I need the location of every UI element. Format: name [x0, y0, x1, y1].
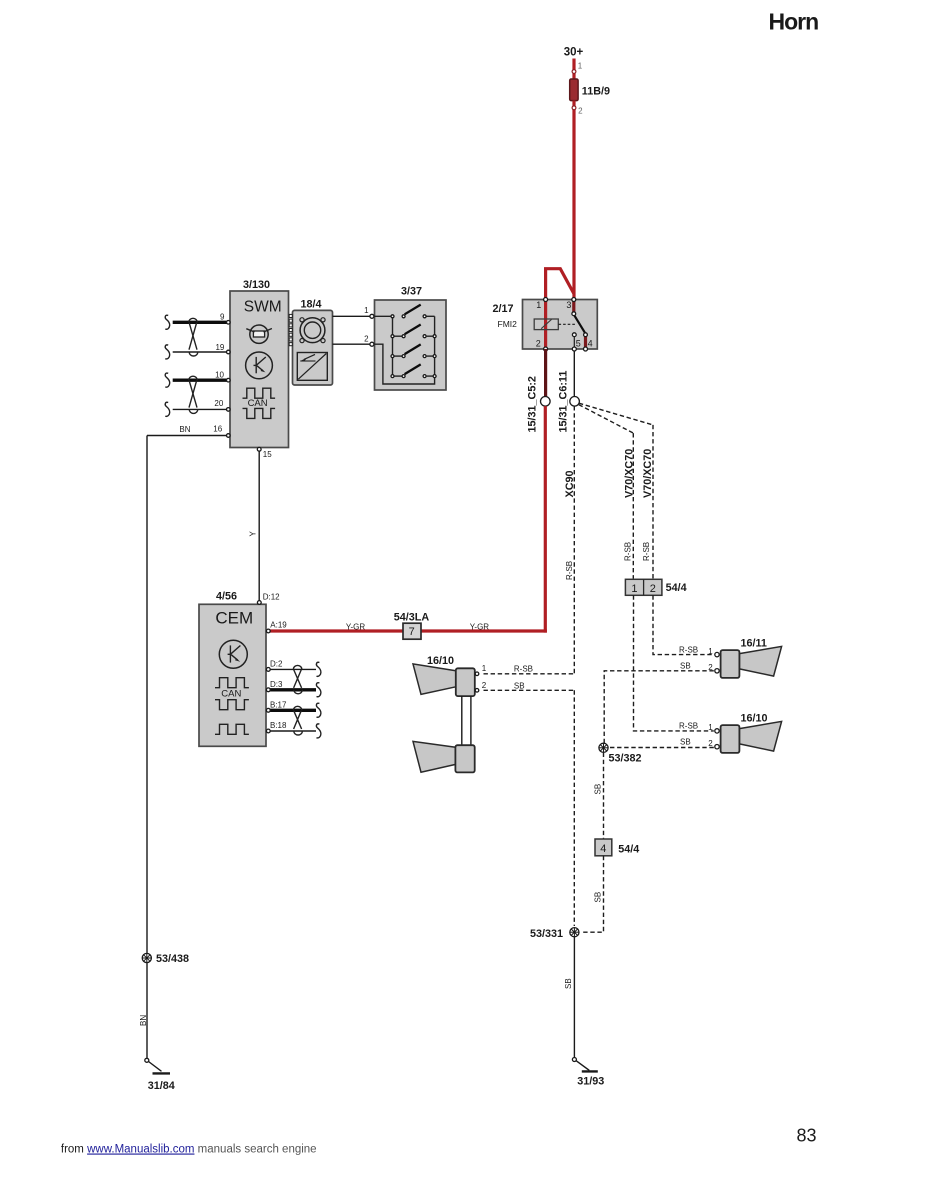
wire dashed diagonal C6:11 to V70/XC70 line 1: [579, 405, 634, 434]
16/10 lower horn body: [455, 745, 474, 772]
svg-text:7: 7: [409, 626, 415, 638]
relay coil-to-switch dashed link: [559, 323, 577, 325]
wire CEM D:2: [270, 668, 316, 670]
svg-text:9: 9: [220, 313, 225, 322]
pin 1 of fuse 11B/9: [572, 70, 576, 74]
3/37 contact circles: [391, 315, 436, 378]
wire SB dashed down to 53/331: [573, 690, 575, 926]
svg-text:3/37: 3/37: [401, 286, 422, 298]
wire V70/XC70 dashed vertical 2: [652, 425, 654, 579]
16/10 upper horn body: [456, 668, 475, 696]
CEM ignition key icon: [219, 640, 247, 668]
wire 18/4 pin1 to 3/37: [333, 315, 370, 317]
16/10 lower horn cone: [413, 741, 456, 772]
16/10 right horn body: [721, 725, 740, 753]
wire SWM pin 10: [173, 379, 227, 382]
junction 53/382: [599, 743, 608, 752]
svg-text:15/31_C5:2: 15/31_C5:2: [526, 376, 538, 432]
connector 54/4 pins 1,2: [625, 579, 662, 595]
16/10 pin 1: [475, 672, 479, 676]
16/11 horn cone: [739, 646, 781, 676]
relay 2/17 FMI2 box: [523, 300, 598, 350]
svg-text:1: 1: [364, 306, 369, 315]
twisted pair symbol B:17/B:18: [293, 706, 302, 735]
relay switch blade pin3 to pin4: [574, 315, 585, 333]
wire red branch bend to relay pin 1: [546, 269, 574, 299]
svg-text:31/93: 31/93: [577, 1076, 604, 1088]
wire SWM 15 to CEM D:12: [258, 451, 260, 601]
relay coil: [534, 319, 558, 330]
wire relay pin5 down to connector C6:11: [573, 351, 575, 397]
wire V70/XC70 dashed vertical 1: [632, 433, 634, 578]
twisted pair symbol pins 9/19: [189, 318, 198, 356]
SWM horn icon: [246, 325, 272, 343]
3/37 pin 2: [370, 342, 374, 346]
relay contact circles: [572, 312, 576, 316]
svg-text:2: 2: [536, 339, 541, 349]
CEM pin D:12: [257, 601, 261, 605]
svg-text:16: 16: [213, 424, 222, 433]
svg-text:BN: BN: [179, 425, 190, 434]
svg-text:4/56: 4/56: [216, 591, 237, 603]
wire BN from SWM 16 down to ground: [146, 436, 148, 1059]
svg-text:2/17: 2/17: [493, 303, 514, 315]
svg-text:2: 2: [650, 583, 656, 595]
svg-text:B:17: B:17: [270, 700, 287, 709]
16/10 pin 2: [475, 689, 479, 693]
3/37 internal wiring: [374, 316, 435, 384]
16/10 right horn cone: [739, 721, 781, 751]
svg-text:D:2: D:2: [270, 659, 283, 668]
wire SWM pin 9: [173, 321, 227, 324]
svg-text:2: 2: [482, 681, 487, 690]
wire SB dashed from 16/10 right pin2 to 53/382: [609, 747, 714, 749]
wire SB dashed 53/382 down to 54/4 pin4: [603, 753, 605, 839]
svg-text:SWM: SWM: [244, 299, 282, 316]
relay pin 4 stub: [584, 336, 587, 349]
svg-text:1: 1: [536, 300, 541, 310]
svg-text:31/84: 31/84: [148, 1080, 175, 1092]
svg-text:1: 1: [708, 647, 713, 656]
svg-text:3: 3: [566, 300, 571, 310]
svg-text:R-SB: R-SB: [679, 721, 698, 730]
svg-text:54/3LA: 54/3LA: [394, 612, 430, 624]
wire dashed 54/4 pin1 down to 16/10 right pin1: [634, 595, 714, 731]
svg-text:CEM: CEM: [215, 609, 253, 628]
wire 30+ feed into fuse: [572, 59, 575, 81]
svg-text:2: 2: [364, 335, 369, 344]
svg-text:1: 1: [482, 664, 487, 673]
16/11 pin 2: [715, 669, 719, 673]
svg-text:1: 1: [578, 62, 583, 71]
CEM module 4/56: [199, 604, 266, 746]
svg-text:16/10: 16/10: [427, 655, 454, 667]
svg-text:SB: SB: [514, 681, 525, 690]
svg-text:B:18: B:18: [270, 721, 287, 730]
twisted pair symbol pins 10/20: [189, 376, 198, 413]
svg-text:15/31_C6:11: 15/31_C6:11: [558, 371, 570, 433]
svg-text:15: 15: [263, 450, 272, 459]
svg-text:4: 4: [588, 338, 593, 348]
svg-text:11B/9: 11B/9: [582, 85, 610, 97]
svg-text:16/10: 16/10: [741, 713, 768, 725]
junction 53/438: [142, 953, 151, 962]
svg-text:19: 19: [215, 343, 224, 352]
fuse 11B/9: [570, 79, 578, 101]
wire SB solid 53/331 to ground 31/93: [573, 937, 575, 1058]
svg-text:BN: BN: [139, 1015, 148, 1026]
3/37 pin 1: [370, 314, 374, 318]
wire CEM B:17: [270, 709, 316, 712]
pin 2 of fuse 11B/9: [572, 101, 575, 300]
svg-text:54/4: 54/4: [666, 582, 687, 594]
switch module 3/37: [375, 300, 447, 390]
svg-text:XC90: XC90: [564, 470, 576, 497]
junction 53/331: [570, 928, 579, 937]
svg-text:54/4: 54/4: [618, 844, 639, 856]
svg-text:SB: SB: [680, 662, 691, 671]
wire SWM pin 19: [173, 351, 227, 353]
svg-text:V70/XC70: V70/XC70: [642, 449, 654, 498]
wire dashed 54/4 pin2 down to 16/11 pin1: [653, 595, 714, 654]
wire 18/4 pin2 to 3/37: [333, 343, 370, 345]
wire red Y-GR horizontal to CEM A:19: [269, 629, 547, 632]
svg-text:2: 2: [578, 106, 583, 115]
svg-text:53/438: 53/438: [156, 953, 189, 965]
svg-text:R-SB: R-SB: [624, 542, 633, 561]
svg-text:R-SB: R-SB: [565, 561, 574, 580]
svg-text:A:19: A:19: [270, 621, 287, 630]
CEM CAN symbol: [215, 678, 249, 735]
svg-text:Horn: Horn: [769, 8, 819, 34]
wire relay pin2 down to connector C5:2: [544, 349, 547, 397]
wire R-SB dashed to 16/10 pin1: [484, 673, 575, 675]
SWM CAN symbol: [243, 388, 276, 418]
svg-text:D:3: D:3: [270, 680, 283, 689]
svg-text:18/4: 18/4: [301, 299, 322, 311]
18/4 connector pin squares: [289, 314, 292, 345]
wire SB dashed from 16/10 pin2: [484, 689, 575, 691]
svg-text:from www.Manualslib.com manual: from www.Manualslib.com manuals search e…: [61, 1144, 317, 1156]
connector 15/31 C6:11: [570, 397, 580, 407]
relay pin 5 internal lead: [573, 337, 575, 348]
svg-text:53/331: 53/331: [530, 928, 563, 940]
wire dashed diagonal C6:11 to V70/XC70 line 2: [579, 403, 653, 425]
connector 54/3LA: [403, 623, 421, 639]
ground 31/93: [572, 1058, 576, 1062]
3/37 switch blades: [405, 305, 421, 375]
wire CEM D:3: [270, 688, 316, 691]
16/10 right pin 1: [715, 729, 719, 733]
wire SB dashed 54/4 pin4 down to 53/331: [581, 856, 604, 932]
svg-text:30+: 30+: [564, 47, 584, 59]
svg-text:16/11: 16/11: [741, 638, 767, 650]
wire SWM pin 16 BN: [147, 435, 227, 437]
18/4 clock spring icon: [300, 318, 325, 343]
SWM pin 15: [257, 447, 261, 451]
connector 18/4: [293, 310, 333, 385]
connector 54/4 pin 4: [595, 839, 612, 856]
wire SWM pin 20: [173, 408, 227, 410]
wire CEM B:18: [270, 730, 316, 732]
16/11 pin 1: [715, 652, 719, 656]
wire red C5:2 down to Y-GR junction: [544, 406, 547, 632]
svg-text:R-SB: R-SB: [679, 646, 698, 655]
svg-text:SB: SB: [680, 738, 691, 747]
wire break S symbols CEM side: [316, 662, 320, 738]
SWM ignition key icon: [246, 352, 273, 379]
CEM pin A:19: [266, 629, 270, 633]
ground 31/84: [145, 1058, 149, 1062]
16/11 horn body: [721, 650, 740, 678]
16/10 right pin 2: [715, 745, 719, 749]
svg-text:3/130: 3/130: [243, 279, 270, 291]
svg-text:CAN: CAN: [248, 398, 268, 409]
svg-text:SB: SB: [594, 892, 603, 903]
wire XC90 dashed from C6:11 down: [573, 406, 575, 674]
16/10 horn mounting rails: [461, 696, 463, 745]
svg-text:1: 1: [708, 723, 713, 732]
connector 15/31 C5:2: [541, 397, 551, 407]
svg-text:20: 20: [214, 399, 223, 408]
svg-text:10: 10: [215, 371, 224, 380]
svg-text:4: 4: [600, 843, 606, 855]
svg-text:FMI2: FMI2: [498, 319, 518, 329]
svg-text:SB: SB: [594, 784, 603, 795]
16/10 upper horn cone: [413, 664, 456, 695]
svg-text:Y: Y: [249, 531, 258, 537]
wire red through relay coil pin1 to pin2: [544, 300, 547, 350]
relay edge pin circles: [544, 298, 548, 302]
wire SB dashed from 16/11 pin2 to 53/382: [604, 671, 714, 743]
wire red into relay pin 3: [572, 300, 575, 314]
twisted pair symbol D:2/D:3: [293, 665, 302, 693]
svg-text:CAN: CAN: [221, 688, 241, 699]
svg-text:2: 2: [708, 739, 713, 748]
svg-text:53/382: 53/382: [609, 753, 642, 765]
svg-text:R-SB: R-SB: [642, 542, 651, 561]
svg-text:1: 1: [631, 583, 637, 595]
svg-text:SB: SB: [564, 978, 573, 989]
18/4 slip ring icon: [297, 353, 327, 381]
svg-text:Y-GR: Y-GR: [470, 623, 489, 632]
svg-text:D:12: D:12: [263, 593, 280, 602]
svg-text:V70/XC70: V70/XC70: [624, 449, 636, 498]
SWM module 3/130: [230, 291, 289, 448]
svg-text:5: 5: [576, 338, 581, 348]
svg-text:Y-GR: Y-GR: [346, 623, 365, 632]
svg-text:R-SB: R-SB: [514, 665, 533, 674]
wire break S symbols SWM side: [165, 315, 169, 416]
svg-text:83: 83: [797, 1126, 817, 1146]
